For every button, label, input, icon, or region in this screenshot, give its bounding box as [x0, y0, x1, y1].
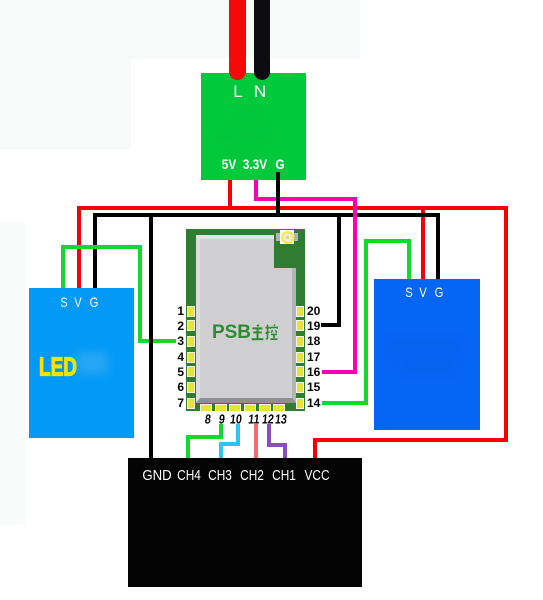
controller box bottom (black) — [128, 458, 362, 587]
wire black bus horizontal (GND rail) — [93, 213, 440, 217]
wire black from G pin of power box — [276, 172, 280, 217]
PSB module antenna corner (green notch) — [274, 229, 305, 268]
wire red from 5V pin down — [228, 172, 232, 210]
wire green pin14 vertical riser — [364, 239, 368, 405]
wire green pin9 vertical — [219, 424, 223, 439]
wire green LED S horizontal top — [61, 245, 142, 249]
pin number 18 — [307, 334, 320, 348]
label LED — [39, 352, 77, 383]
wire cyan pin10 vertical — [236, 424, 240, 446]
pin number 16 — [307, 365, 320, 379]
label LED V — [74, 294, 81, 310]
label 主 glyph (drawn) — [251, 324, 264, 341]
label 控 glyph (drawn) — [265, 324, 278, 341]
receiver faint watermark — [390, 330, 470, 380]
label LED S — [60, 294, 67, 310]
mains wire L (red thick) — [229, 0, 246, 80]
label PSB (module name text) — [212, 322, 251, 344]
pin number 15 — [307, 380, 320, 394]
pin number 3 — [177, 334, 184, 348]
wire red bottom horizontal to VCC — [313, 438, 508, 442]
label right S — [405, 284, 412, 300]
wire magenta horizontal — [254, 197, 357, 201]
wire green top horizontal to right box — [364, 239, 411, 243]
wire cyan horizontal — [219, 442, 240, 446]
label CH2 — [240, 467, 264, 484]
label 5V — [221, 156, 236, 172]
label CH4 — [177, 467, 201, 484]
pin number 10 — [229, 412, 242, 427]
pin number 8 — [204, 412, 212, 427]
pin number 11 — [247, 412, 260, 427]
mains wire N (black thick) — [254, 0, 270, 80]
PSB module IPEX connector left tab — [276, 233, 281, 241]
pin number 17 — [307, 350, 320, 364]
wire magenta vertical — [353, 197, 357, 374]
label LED G — [90, 294, 99, 310]
pin number 9 — [218, 412, 226, 427]
pin number 4 — [177, 350, 184, 364]
wire purple pin12 vertical — [267, 424, 271, 447]
wire purple drop into CH1 — [283, 443, 287, 458]
wire purple horizontal — [267, 443, 287, 447]
label right G — [434, 284, 443, 300]
wire green pin9 horizontal — [186, 435, 223, 439]
pin number 13 — [274, 412, 287, 427]
PSB module shield — [196, 235, 296, 403]
wire black drop to right box G — [436, 213, 440, 280]
pin number 2 — [177, 319, 184, 333]
power supply faint logo — [215, 105, 275, 165]
wire magenta horizontal into pin 16 — [322, 370, 357, 374]
pin number 12 — [261, 412, 274, 427]
wire magenta from 3.3V pin down — [254, 175, 258, 200]
pads left column — [188, 307, 194, 316]
pin number 19 — [307, 319, 320, 333]
pads bottom row — [201, 405, 211, 411]
pin number 14 — [307, 396, 320, 410]
PSB module IPEX connector right tab — [293, 233, 298, 241]
pin number 5 — [177, 365, 184, 379]
pin number 6 — [177, 380, 184, 394]
PSB module IPEX connector body — [280, 230, 294, 244]
wire black branch to pin 19 horizontal — [321, 323, 341, 327]
PSB module IPEX ring — [281, 231, 294, 244]
wire red drop to right box V — [421, 206, 425, 280]
label G — [275, 156, 284, 172]
label CH3 — [208, 467, 232, 484]
wire green vertical down to pin3 row — [138, 245, 142, 343]
label CH1 — [272, 467, 296, 484]
pads right column — [297, 307, 303, 316]
PSB module U2 (PCB) — [186, 229, 305, 411]
wire salmon pin11 drop into CH2 — [254, 424, 258, 459]
label 3.3V — [243, 156, 267, 172]
label right V — [419, 284, 426, 300]
wire green horizontal into pin 3 — [138, 339, 176, 343]
wire green LED S vertical into box — [61, 245, 65, 289]
wire red bus horizontal (5V rail) — [77, 206, 508, 210]
pin number 20 — [307, 304, 320, 318]
wire green drop into CH4 — [186, 435, 190, 459]
label L — [233, 82, 242, 102]
LED box faint watermark — [76, 352, 108, 374]
wire cyan drop into CH3 — [219, 442, 223, 459]
wire red drop into VCC — [313, 438, 317, 459]
pin number 1 — [177, 304, 184, 318]
wire black branch to pin 19 vertical — [337, 213, 341, 327]
wire green pin14 horizontal — [322, 401, 368, 405]
wire black drop to GND of controller — [149, 213, 153, 458]
label N — [254, 82, 266, 102]
wire green drop to right box S — [407, 239, 411, 280]
wire black left drop to LED G — [93, 213, 97, 289]
wire red left drop to LED V — [77, 206, 81, 290]
pin number 7 — [177, 396, 184, 410]
background light patch left strip — [0, 222, 25, 525]
LED strip box — [29, 288, 134, 438]
label VCC — [304, 467, 329, 484]
wire red right drop — [504, 206, 508, 442]
background light patch top-left block — [0, 0, 131, 149]
receiver box right — [374, 279, 480, 430]
power supply box U1 — [201, 73, 306, 180]
background light patch top strip — [0, 0, 360, 59]
PSB module IPEX center dot — [286, 236, 289, 239]
label GND — [142, 467, 171, 484]
